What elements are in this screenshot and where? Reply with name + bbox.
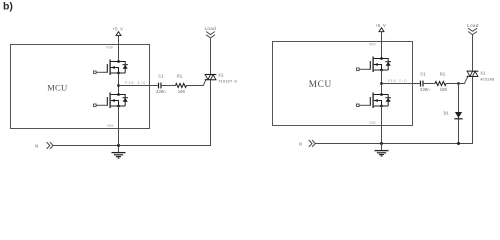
+5 V power symbol (left) [116,32,121,36]
svg-text:MCU: MCU [47,83,68,93]
wire R1 to gate junction (right) [446,83,458,85]
svg-text:C1: C1 [420,73,426,78]
transistor Q4 low-side N-MOSFET (right) [357,93,392,109]
wire lower MOSFET to ground rail (right) [381,106,383,144]
svg-text:R1: R1 [440,73,446,78]
svg-text:MCU: MCU [309,80,332,90]
svg-text:+5 V: +5 V [112,27,123,32]
MCU box (right) [273,42,413,126]
svg-text:VSS: VSS [369,122,376,126]
resistor R1 (left) [175,84,186,88]
transistor Q3 high-side P-MOSFET (right) [357,57,392,73]
wire +5V to upper MOSFET (right) [381,32,383,59]
wire Load to triac (left) [210,38,212,75]
ground symbol (left) [112,146,126,159]
svg-text:R1: R1 [177,75,183,80]
wire output node to C1 (left) [119,85,158,87]
svg-text:N: N [299,142,302,148]
wire triac down to bottom rail corner (right) [315,76,472,143]
wire Load to triac (right) [472,35,474,72]
Load off-page connector (left) [206,32,215,35]
junction bottom rail / ground (right) [380,142,383,145]
resistor R1 (right) [435,82,446,86]
svg-text:ACS108: ACS108 [480,79,495,83]
wire C1 to R1 (left) [162,85,176,87]
svg-text:b): b) [3,1,13,13]
ground symbol (right) [375,144,389,157]
transistor Q1 high-side P-MOSFET (left) [94,60,129,76]
wire between MOSFETs (right) [381,70,383,95]
MCU box (left) [11,45,150,129]
wire +5V to upper MOSFET (left) [118,36,120,62]
diode D1 (right) [454,112,462,119]
junction D1 to bottom rail (right) [457,142,460,145]
svg-text:C1: C1 [158,75,164,80]
svg-text:X1: X1 [480,72,486,77]
wire C1 to R1 (right) [424,83,435,85]
capacitor C1 (right) [421,81,424,87]
junction gate node (right) [457,82,460,85]
svg-text:D1: D1 [444,111,450,116]
svg-text:X1: X1 [218,73,224,78]
junction bottom rail / ground (left) [117,144,120,147]
N off-page connector (left) [47,142,50,149]
svg-text:330n: 330n [420,89,430,93]
svg-text:T1610T-8: T1610T-8 [218,81,237,85]
Load off-page connector (right) [468,28,477,31]
svg-text:VDD: VDD [369,43,376,47]
svg-text:100: 100 [178,91,186,95]
svg-text:100: 100 [440,89,448,93]
wire output node to C1 (right) [382,83,421,85]
wire between MOSFETs (left) [118,73,120,95]
junction output node (left) [117,84,120,87]
wire gate junction down through D1 to bottom rail (right) [458,84,460,144]
wire gate junction to triac gate (right) [459,76,468,83]
wire lower MOSFET to ground rail (left) [118,106,120,146]
svg-text:330n: 330n [156,91,166,95]
wire triac down to bottom rail corner (left) [53,80,210,146]
triac X1 (right) [467,71,479,76]
transistor Q2 low-side N-MOSFET (left) [94,93,129,109]
triac X1 (left) [205,75,217,80]
svg-text:VDD: VDD [106,46,113,50]
svg-text:+5 V: +5 V [375,24,386,29]
capacitor C1 (left) [159,83,162,89]
svg-text:N: N [35,144,38,150]
svg-text:VSS: VSS [107,125,114,129]
wire R1 to triac gate (left) [187,80,206,86]
+5 V power symbol (right) [379,28,384,32]
svg-text:Load: Load [204,26,216,32]
junction output node (right) [380,82,383,85]
N off-page connector (right) [309,140,312,147]
